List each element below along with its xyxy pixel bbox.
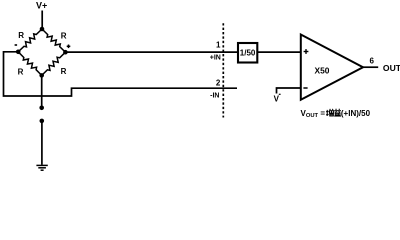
- wire 1/50 block to op-amp + input: [257, 51, 301, 53]
- svg-text:R: R: [61, 67, 67, 76]
- svg-text:1/50: 1/50: [240, 49, 256, 58]
- node bridge left junction dot: [16, 50, 21, 55]
- resistor R (bridge bottom-right arm): [42, 52, 66, 75]
- node bridge top junction dot: [40, 27, 45, 32]
- op-amp U1 triangle: [301, 35, 363, 100]
- ground symbol: [36, 165, 47, 170]
- svg-text:6: 6: [369, 57, 374, 66]
- node bridge bottom junction dot: [39, 73, 44, 78]
- polarity label plus at bridge right: [67, 45, 71, 49]
- resistor R (bridge top-right arm): [42, 29, 65, 52]
- wire V+ to bridge top node: [41, 11, 43, 30]
- svg-text:(+IN)/50: (+IN)/50: [341, 109, 371, 118]
- svg-text:V+: V+: [36, 0, 47, 10]
- formula glyph YI (Chinese): [334, 109, 341, 116]
- op-amp - input marker: [303, 87, 307, 89]
- svg-text:R: R: [61, 32, 67, 41]
- supply V- wire to op-amp - input: [277, 88, 301, 94]
- node bridge right junction dot: [63, 50, 68, 55]
- node terminal dot upper: [39, 106, 44, 111]
- svg-text:VOUT =: VOUT =: [301, 109, 326, 119]
- svg-text:-IN: -IN: [210, 93, 219, 100]
- IC boundary dashed line: [222, 23, 224, 117]
- wire terminal to ground: [41, 121, 43, 165]
- svg-text:R: R: [18, 31, 24, 40]
- wire +IN net: bridge right node to 1/50 block: [65, 51, 238, 53]
- polarity label minus at bridge left: [15, 44, 18, 46]
- svg-text:+IN: +IN: [210, 55, 221, 62]
- wire -IN net: bridge left node routed below bridge to pin 2: [4, 52, 238, 96]
- formula glyph ZENG (Chinese): [326, 109, 334, 116]
- svg-text:1: 1: [216, 41, 221, 50]
- block U1a 1/50 attenuator: [238, 43, 257, 63]
- wire op-amp output: [363, 66, 378, 68]
- wire bridge bottom node down to terminal: [41, 75, 43, 106]
- svg-text:V: V: [274, 95, 280, 104]
- node terminal dot lower: [40, 119, 45, 124]
- svg-text:OUT: OUT: [383, 63, 400, 73]
- svg-text:2: 2: [216, 79, 221, 88]
- resistor R (bridge bottom-left arm): [18, 52, 42, 76]
- op-amp + input marker: [304, 49, 309, 54]
- resistor R (bridge top-left arm): [18, 29, 42, 52]
- svg-text:R: R: [18, 68, 24, 77]
- svg-text:X50: X50: [315, 66, 330, 76]
